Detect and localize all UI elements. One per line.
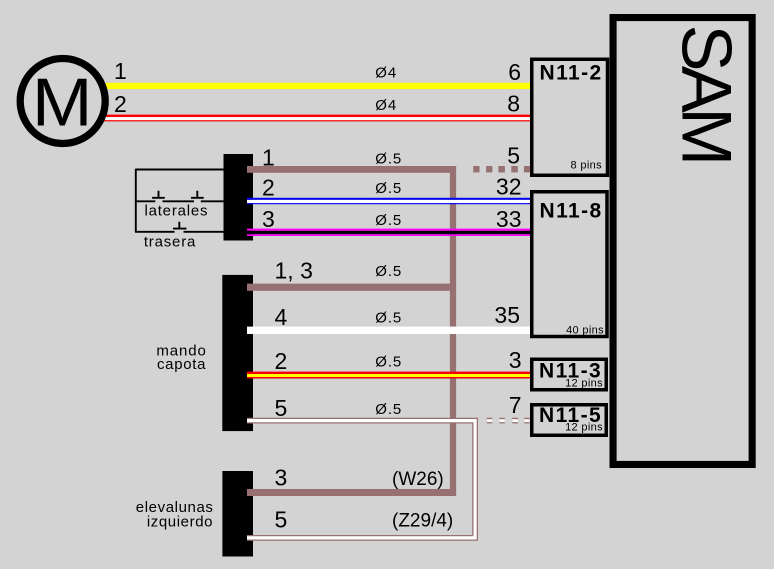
svg-text:N11-8: N11-8 [540, 199, 603, 222]
wire magenta/black (laterales pin 3 to N11-8 pin 33) [247, 229, 530, 236]
connector bar (mando capota) [222, 275, 253, 431]
wire white/brown (mando capota pin 5 to elevalunas pin 5) [247, 421, 475, 538]
wire brown dashed (to N11-2 pin 5) [473, 166, 530, 172]
wire 2 red/white (motor 2 to N11-2 pin 8) [104, 115, 530, 122]
connector N11-3 [532, 359, 607, 390]
wire brown trunk (vertical) [450, 166, 456, 496]
svg-text:Ø.5: Ø.5 [375, 354, 402, 371]
svg-text:1: 1 [262, 145, 275, 171]
svg-text:4: 4 [275, 304, 288, 330]
svg-text:1, 3: 1, 3 [275, 258, 313, 284]
svg-text:2: 2 [114, 91, 127, 117]
svg-text:35: 35 [494, 302, 520, 328]
svg-text:(Z29/4): (Z29/4) [392, 510, 453, 531]
svg-text:3: 3 [509, 347, 522, 373]
svg-text:izquierdo: izquierdo [147, 513, 213, 530]
svg-text:M: M [32, 64, 93, 140]
svg-text:Ø4: Ø4 [375, 64, 397, 81]
wire white/brown dashed (to N11-5 pin 7) [487, 418, 530, 424]
switch contact S2 (laterales) [191, 191, 204, 198]
connector N11-5 [532, 405, 607, 436]
svg-text:Ø.5: Ø.5 [375, 212, 402, 229]
svg-text:12 pins: 12 pins [565, 422, 603, 434]
wire 1 yellow (motor 1 to N11-2 pin 6) [104, 83, 530, 89]
svg-text:5: 5 [275, 395, 288, 421]
svg-text:5: 5 [507, 143, 520, 169]
connector bar (elevalunas izquierdo) [222, 471, 253, 557]
svg-text:1: 1 [114, 58, 127, 84]
wire brown (mando capota pins 1,3) [247, 284, 456, 291]
connector N11-2 [532, 59, 608, 175]
wire red/yellow (mando capota pin 2 to N11-3 pin 3) [247, 372, 530, 379]
svg-text:Ø.5: Ø.5 [375, 263, 402, 280]
svg-text:Ø4: Ø4 [375, 97, 397, 114]
svg-text:33: 33 [496, 206, 522, 232]
SAM module box [613, 18, 752, 465]
wire brown (laterales pin 1) [247, 166, 456, 173]
wire blue/white (laterales pin 2 to N11-8 pin 32) [247, 198, 530, 204]
switch box laterales/trasera [135, 169, 224, 233]
svg-text:12 pins: 12 pins [565, 377, 603, 389]
svg-text:40 pins: 40 pins [566, 325, 604, 337]
svg-text:Ø.5: Ø.5 [375, 401, 402, 418]
svg-text:8 pins: 8 pins [571, 160, 603, 172]
svg-text:laterales: laterales [144, 203, 208, 220]
connector N11-8 [532, 192, 607, 337]
connector bar (laterales switch) [224, 154, 254, 241]
wire white (mando capota pin 4 to N11-8 pin 35) [247, 327, 530, 334]
motor M [20, 59, 105, 144]
svg-text:32: 32 [496, 174, 522, 200]
svg-text:capota: capota [157, 356, 206, 373]
svg-text:SAM: SAM [668, 25, 747, 161]
svg-text:Ø.5: Ø.5 [375, 310, 402, 327]
svg-text:Ø.5: Ø.5 [375, 150, 402, 167]
svg-text:2: 2 [262, 174, 275, 200]
svg-text:3: 3 [262, 206, 275, 232]
svg-text:2: 2 [275, 348, 288, 374]
svg-text:5: 5 [275, 507, 288, 533]
svg-text:6: 6 [508, 59, 521, 85]
svg-text:3: 3 [275, 464, 288, 490]
svg-text:trasera: trasera [144, 234, 196, 251]
svg-text:N11-2: N11-2 [540, 61, 603, 84]
svg-text:7: 7 [509, 392, 522, 418]
switch contact S3 (trasera) [173, 222, 187, 229]
svg-text:(W26): (W26) [392, 469, 444, 490]
switch contact S1 (laterales) [152, 191, 165, 198]
svg-text:8: 8 [507, 91, 520, 117]
svg-text:Ø.5: Ø.5 [375, 180, 402, 197]
wire brown (elevalunas pin 3) [247, 489, 456, 496]
